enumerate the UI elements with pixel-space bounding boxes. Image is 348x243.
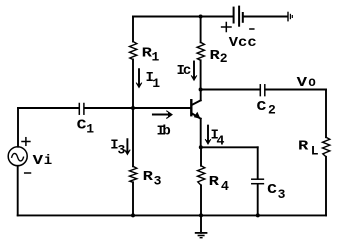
svg-text:o: o — [308, 75, 316, 91]
svg-text:3: 3 — [118, 143, 126, 158]
svg-text:4: 4 — [216, 134, 224, 149]
svg-text:1: 1 — [152, 50, 160, 65]
svg-text:4: 4 — [221, 180, 229, 195]
svg-text:2: 2 — [268, 103, 276, 118]
svg-text:3: 3 — [278, 187, 286, 202]
svg-text:3: 3 — [154, 174, 162, 189]
svg-text:V: V — [297, 75, 308, 91]
svg-text:Ic: Ic — [177, 63, 191, 79]
svg-text:Vcc: Vcc — [229, 35, 257, 51]
svg-text:2: 2 — [220, 51, 228, 66]
svg-text:R: R — [143, 169, 154, 185]
svg-text:R: R — [209, 174, 220, 190]
svg-text:i: i — [44, 153, 52, 169]
svg-text:1: 1 — [152, 76, 160, 91]
svg-text:V: V — [33, 153, 44, 169]
svg-text:R: R — [298, 139, 309, 155]
svg-text:L: L — [311, 144, 319, 159]
svg-text:C: C — [267, 182, 277, 198]
svg-text:1: 1 — [86, 122, 94, 137]
svg-text:Ib: Ib — [157, 124, 171, 140]
svg-text:C: C — [257, 99, 267, 115]
